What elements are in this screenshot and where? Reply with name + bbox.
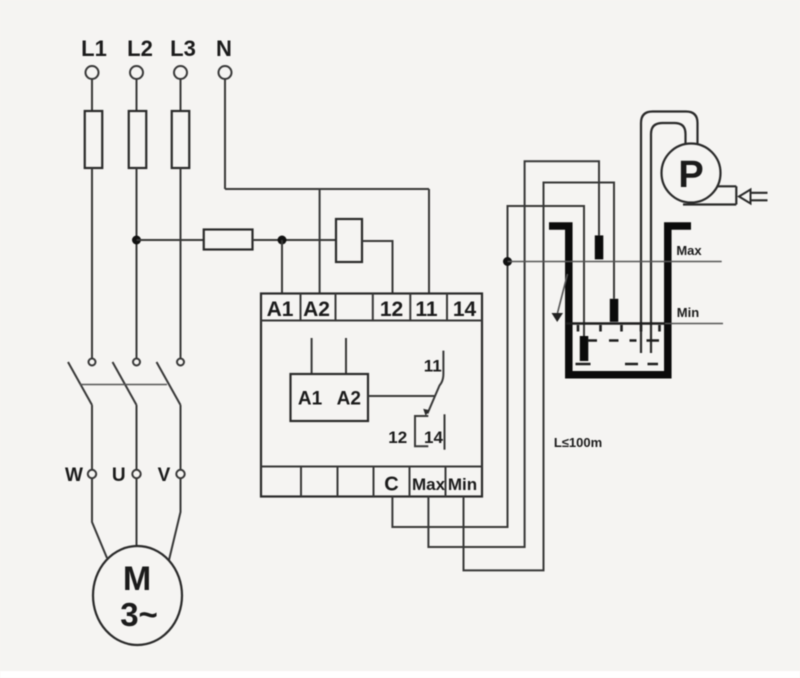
wire L1 fuse to contactor <box>91 168 93 359</box>
level line Max <box>508 261 722 263</box>
terminal W <box>88 470 96 478</box>
electrode Max tip <box>595 235 604 259</box>
svg-text:M: M <box>123 560 151 598</box>
svg-text:11: 11 <box>415 298 438 321</box>
pipe outer wall <box>641 112 698 354</box>
fuse F1 <box>85 111 103 168</box>
svg-text:A1: A1 <box>298 389 323 410</box>
svg-text:12: 12 <box>388 428 407 447</box>
coil K1 <box>336 219 362 262</box>
wire U to motor <box>136 478 138 546</box>
electrode Min tip <box>610 299 619 322</box>
svg-text:W: W <box>65 465 83 486</box>
wire N horizontal run <box>225 188 429 190</box>
svg-text:L2: L2 <box>127 36 153 61</box>
relay U1 outline <box>261 294 482 497</box>
tank inlet funnel arrow <box>552 313 564 322</box>
wire control fuse to coil <box>253 239 337 241</box>
contact blade arrowhead <box>423 409 429 416</box>
wire tap to A1 <box>281 240 283 294</box>
fuse F3 <box>172 111 190 168</box>
svg-text:14: 14 <box>424 428 443 447</box>
terminal L2 <box>130 66 143 79</box>
contactor blade 3 <box>157 362 181 405</box>
wire C to electrode <box>392 206 584 527</box>
wire W to motor <box>92 478 107 558</box>
svg-text:A2: A2 <box>337 389 361 410</box>
wire N down <box>224 79 226 189</box>
wire Max to electrode <box>428 161 599 547</box>
contact bracket 12 <box>415 416 428 446</box>
contactor blade 2 <box>113 362 137 405</box>
terminal L3 <box>174 66 187 79</box>
water surface ticks <box>578 325 660 332</box>
svg-text:L1: L1 <box>81 36 107 61</box>
svg-text:C: C <box>384 474 398 496</box>
wire Min to electrode <box>464 183 615 571</box>
coil stubs inside relay <box>312 338 346 374</box>
motor M1 <box>93 546 182 645</box>
flow arrow lines <box>751 193 768 201</box>
electrode C tip <box>580 336 589 361</box>
level line Min / water surface <box>566 322 665 325</box>
contactor linkage <box>80 384 167 386</box>
relay bottom terminal strip <box>261 466 482 468</box>
wire blade1 to W <box>91 405 93 470</box>
wire N branch to A2 <box>319 189 321 294</box>
tank T1 <box>549 226 691 375</box>
contact lead 11 <box>428 351 444 414</box>
wire coil to 12 <box>362 241 393 294</box>
terminal U <box>132 470 140 478</box>
svg-text:V: V <box>158 465 171 486</box>
svg-text:Max: Max <box>412 475 446 494</box>
wire blade3 to V <box>180 405 182 470</box>
svg-text:14: 14 <box>453 298 477 321</box>
contact bar 14 <box>444 414 446 449</box>
svg-text:A2: A2 <box>303 298 330 321</box>
flow arrow head <box>739 190 751 204</box>
svg-text:3~: 3~ <box>120 596 158 633</box>
wire V to motor <box>169 478 181 560</box>
wire L2 to fuse <box>136 79 138 111</box>
pipe inner wall <box>651 123 686 353</box>
water dashes row1 <box>588 339 660 342</box>
svg-text:11: 11 <box>424 357 442 376</box>
svg-text:Min: Min <box>677 305 699 320</box>
fuse F2 <box>129 111 147 168</box>
wire L1 to fuse <box>91 79 93 111</box>
relay coil box A1 A2 <box>291 374 369 421</box>
contactor Q1 fixed contacts <box>89 359 96 366</box>
svg-text:N: N <box>216 36 232 61</box>
wire L3 to fuse <box>180 79 182 111</box>
relay top terminal strip <box>261 320 482 322</box>
wire L2 fuse to contactor <box>136 168 138 359</box>
terminal N <box>219 66 232 79</box>
svg-text:L≤100m: L≤100m <box>554 435 602 450</box>
svg-text:P: P <box>678 154 703 196</box>
svg-text:U: U <box>112 465 126 486</box>
junction L2 tap <box>132 236 141 245</box>
contactor blade 1 <box>68 362 92 405</box>
svg-text:12: 12 <box>380 298 403 321</box>
wire L2 tap to control fuse <box>137 239 204 241</box>
pump P1 body <box>662 144 721 203</box>
tank inlet funnel line <box>558 274 568 313</box>
wire N to terminal 11 <box>428 189 430 294</box>
svg-text:Max: Max <box>676 243 702 258</box>
svg-text:L3: L3 <box>170 36 196 61</box>
wire coil box to contact <box>368 395 435 397</box>
wire blade2 to U <box>136 405 138 470</box>
terminal L1 <box>86 66 99 79</box>
water dashes row2 <box>576 363 659 366</box>
junction A1 tap <box>278 236 287 245</box>
terminal V <box>176 470 184 478</box>
pump outlet duct <box>683 186 736 204</box>
svg-text:A1: A1 <box>267 298 294 321</box>
junction C max-line <box>503 257 512 266</box>
fuse F4 control <box>204 230 253 250</box>
wire L3 fuse to contactor <box>180 168 182 359</box>
svg-text:Min: Min <box>448 475 477 494</box>
